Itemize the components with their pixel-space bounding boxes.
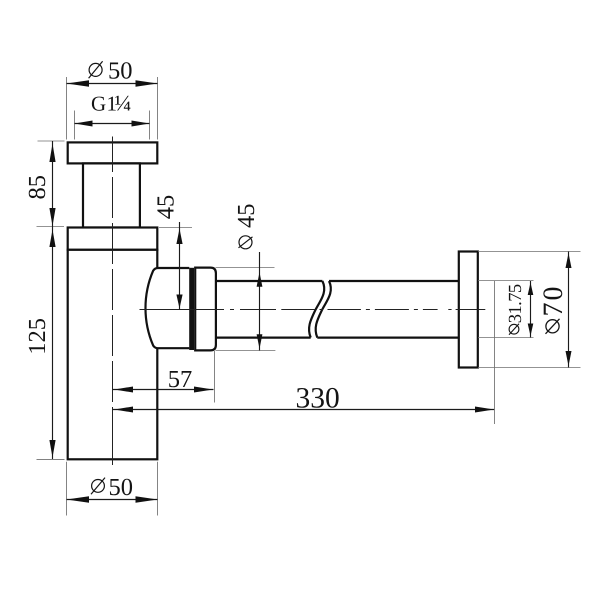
dim 57: dimension line with arrows xyxy=(113,389,214,391)
gasket bar (thick joint ring) xyxy=(189,268,194,350)
horizontal centerline of outlet pipe xyxy=(140,309,486,311)
neck tube G1 1/4 xyxy=(83,163,140,227)
dim ⌀45: dimension line with arrows xyxy=(259,252,261,351)
dim ⌀31.75: text (rotated) xyxy=(506,284,526,335)
dim ⌀45 (nut OD): extension lines xyxy=(216,267,275,269)
svg-text:G1¼: G1¼ xyxy=(91,91,131,116)
dim ⌀70: text (rotated) xyxy=(538,287,569,334)
dim ⌀70: dimension line with arrows xyxy=(568,252,570,368)
dim ⌀31.75: dimension line with arrows xyxy=(530,281,532,338)
dim 125: bottom extension line xyxy=(37,458,65,460)
dim 85: extension lines xyxy=(38,140,65,142)
svg-text:50: 50 xyxy=(109,474,134,501)
wall flange xyxy=(459,252,478,368)
dim 45: dimension line with arrows xyxy=(179,222,181,310)
svg-text:45: 45 xyxy=(152,195,179,220)
pipe break curve left xyxy=(309,281,324,338)
dim ⌀50 bottom: dimension line with arrows xyxy=(67,499,158,501)
dim 125: dimension line with arrows xyxy=(52,227,54,460)
dim ⌀50 bottom: extension lines xyxy=(66,462,68,516)
vertical centerline of trap body xyxy=(112,137,114,466)
dim ⌀50 bottom: text xyxy=(91,474,133,501)
dim ⌀45: text (rotated) xyxy=(233,204,260,249)
trap body cup xyxy=(68,250,158,459)
dim G1 1/4: extension lines xyxy=(74,111,76,140)
svg-text:57: 57 xyxy=(168,366,193,393)
dim 85: dimension line with arrows xyxy=(52,141,54,227)
top flange (basin nut) xyxy=(68,142,158,163)
svg-text:85: 85 xyxy=(24,175,51,200)
dim ⌀50 top: text xyxy=(89,58,133,85)
dim 330: right extension line xyxy=(494,281,496,424)
compression nut xyxy=(195,268,216,351)
svg-text:45: 45 xyxy=(233,204,260,229)
outlet pipe segment right (break to wall flange) xyxy=(329,280,459,282)
dim ⌀70: extension lines xyxy=(478,251,581,253)
outlet pipe segment left (to break) xyxy=(216,280,323,282)
dim 330: dimension line with arrows xyxy=(113,409,495,411)
body top flange xyxy=(68,228,158,250)
dim ⌀50 top: dimension line with arrows xyxy=(67,83,158,85)
dim G1 1/4: dimension line with arrows xyxy=(75,123,150,125)
dim 57: right extension line xyxy=(214,351,216,403)
svg-text:125: 125 xyxy=(24,318,51,355)
dim 45 (nut top to pipe centerline): extension line xyxy=(159,227,192,229)
dim ⌀31.75: extension lines (pipe tail through flange) xyxy=(478,280,534,282)
pipe break curve right xyxy=(316,281,331,338)
dim ⌀50 top: extension lines xyxy=(66,77,68,140)
svg-text:330: 330 xyxy=(296,382,340,414)
elbow outlet on body xyxy=(145,268,189,348)
svg-text:50: 50 xyxy=(108,58,133,85)
svg-text:31.75: 31.75 xyxy=(506,284,526,323)
